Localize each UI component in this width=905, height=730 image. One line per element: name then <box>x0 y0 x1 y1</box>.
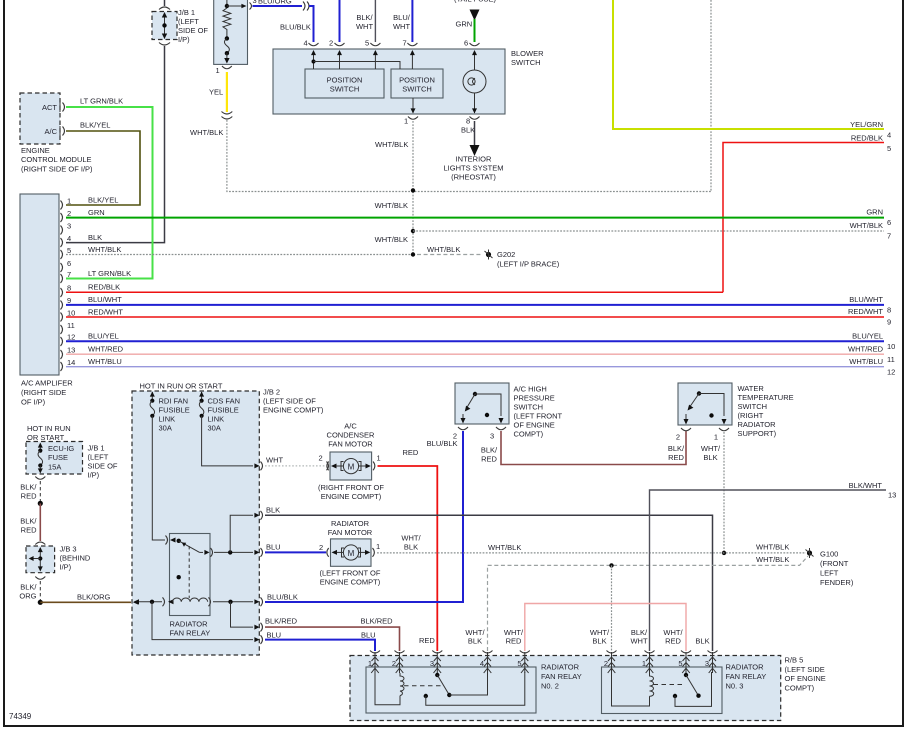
ECM label <box>21 146 93 174</box>
svg-text:WHT/BLK: WHT/BLK <box>375 201 408 210</box>
J/B 3 box <box>26 546 55 573</box>
svg-text:BLU/BLK: BLU/BLK <box>267 593 298 602</box>
svg-text:BLK: BLK <box>404 543 418 552</box>
J/B 2 box <box>132 391 259 655</box>
wire BLK/RED pressure switch to water temp switch <box>501 431 686 465</box>
svg-text:2: 2 <box>604 659 608 668</box>
svg-text:BLK/YEL: BLK/YEL <box>88 196 118 205</box>
A/C condenser fan motor box <box>330 452 372 480</box>
svg-text:WHT: WHT <box>266 456 283 465</box>
svg-text:5: 5 <box>365 39 369 48</box>
svg-text:POSITION: POSITION <box>399 76 435 85</box>
A/C amp pin 3 <box>61 222 72 235</box>
svg-text:RED: RED <box>668 453 684 462</box>
wire BLK/YEL from ECM A/C to A/C amp pin 1 <box>66 121 140 206</box>
svg-text:3: 3 <box>430 659 434 668</box>
svg-text:SIDE OF: SIDE OF <box>178 26 208 35</box>
svg-text:A/C HIGH: A/C HIGH <box>514 385 547 394</box>
svg-text:WHT/RED: WHT/RED <box>88 345 124 354</box>
svg-text:BLU/ORG: BLU/ORG <box>258 0 292 6</box>
svg-text:N0. 2: N0. 2 <box>541 682 559 691</box>
radiator fan relay No.3 box <box>602 667 723 714</box>
J/B 1 connector internals <box>162 12 167 39</box>
svg-text:SWITCH: SWITCH <box>511 58 541 67</box>
A/C amp pin 6 <box>61 259 72 272</box>
svg-text:WHT/: WHT/ <box>401 534 421 543</box>
svg-text:I/P): I/P) <box>88 471 100 480</box>
svg-text:WHT/BLK: WHT/BLK <box>756 555 789 564</box>
svg-text:1: 1 <box>67 197 71 206</box>
wire BLK/RED to relay2 pin 2 <box>265 617 400 652</box>
water temperature switch label <box>738 384 794 438</box>
svg-text:BLK/YEL: BLK/YEL <box>80 121 110 130</box>
A/C amp pin 11 <box>61 321 75 334</box>
svg-text:5: 5 <box>887 144 891 153</box>
svg-text:4: 4 <box>67 234 71 243</box>
svg-text:FAN RELAY: FAN RELAY <box>170 629 211 638</box>
A/C condenser fan motor location label <box>318 483 384 501</box>
svg-text:RED: RED <box>403 448 419 457</box>
svg-text:RED: RED <box>506 637 522 646</box>
svg-text:LINK: LINK <box>159 415 176 424</box>
svg-text:J/B 1: J/B 1 <box>178 8 195 17</box>
svg-text:WHT/BLK: WHT/BLK <box>190 128 223 137</box>
svg-text:ORG: ORG <box>19 592 36 601</box>
wire WHT/RED bridge relay2 pin5 to relay3 pin5 <box>525 604 686 652</box>
svg-text:(RHEOSTAT): (RHEOSTAT) <box>451 173 496 182</box>
relay3 internals <box>612 672 712 706</box>
blower switch label <box>511 49 544 67</box>
svg-text:7: 7 <box>403 39 407 48</box>
inline connector on YEL/WHT-BLK wire <box>222 112 233 120</box>
svg-text:SWITCH: SWITCH <box>330 85 360 94</box>
svg-text:GRN: GRN <box>866 208 883 217</box>
svg-text:BLK/: BLK/ <box>20 483 37 492</box>
radiator fan relay No.2 label <box>541 663 582 691</box>
engine control module box <box>20 93 60 144</box>
radiator fan relay No.2 box <box>366 667 536 713</box>
svg-text:BLU/WHT: BLU/WHT <box>88 295 122 304</box>
svg-text:BLK: BLK <box>468 637 482 646</box>
svg-text:POSITION: POSITION <box>327 76 363 85</box>
svg-text:BLU/WHT: BLU/WHT <box>849 295 883 304</box>
wire BLU/WHT into blower pin 7 <box>393 0 412 48</box>
position switch 2 text <box>399 76 435 94</box>
svg-text:3: 3 <box>490 432 494 441</box>
svg-text:BLK/: BLK/ <box>20 517 37 526</box>
svg-text:BLU/YEL: BLU/YEL <box>88 332 119 341</box>
svg-text:LINK: LINK <box>208 415 225 424</box>
svg-text:WHT/BLK: WHT/BLK <box>88 245 121 254</box>
svg-text:RED/WHT: RED/WHT <box>88 308 123 317</box>
svg-text:8: 8 <box>466 117 470 126</box>
wire BLU into blower pin 2 <box>329 0 340 48</box>
wire WHT/BLK relay grounds dashed to G100 <box>488 555 809 651</box>
J/B 2 label <box>263 388 324 415</box>
position switch 1 text <box>327 76 363 94</box>
svg-text:A/C AMPLIFER: A/C AMPLIFER <box>21 379 73 388</box>
svg-text:OF ENGINE: OF ENGINE <box>514 421 555 430</box>
svg-text:J/B 1: J/B 1 <box>88 444 105 453</box>
radiator fan relay box <box>170 534 211 616</box>
svg-text:RADIATOR: RADIATOR <box>726 663 765 672</box>
svg-text:BLK/RED: BLK/RED <box>361 617 394 626</box>
svg-text:(LEFT SIDE: (LEFT SIDE <box>785 665 825 674</box>
svg-text:2: 2 <box>676 433 680 442</box>
svg-text:SIDE OF: SIDE OF <box>88 462 118 471</box>
svg-text:6: 6 <box>67 259 71 268</box>
A/C high pressure switch label <box>514 385 563 439</box>
svg-text:15A: 15A <box>48 463 61 472</box>
svg-text:FUSIBLE: FUSIBLE <box>159 406 190 415</box>
svg-text:SWITCH: SWITCH <box>514 403 544 412</box>
svg-text:RED: RED <box>665 637 681 646</box>
svg-text:GRN: GRN <box>88 208 105 217</box>
svg-text:10: 10 <box>67 309 75 318</box>
radiator fan motor location label <box>320 569 381 587</box>
blower switch internals <box>311 50 477 70</box>
svg-text:WATER: WATER <box>738 384 765 393</box>
svg-text:3: 3 <box>705 659 709 668</box>
water temperature switch internals <box>684 391 727 424</box>
svg-text:7: 7 <box>67 270 71 279</box>
svg-text:HOT IN RUN OR START: HOT IN RUN OR START <box>140 382 223 391</box>
A/C amp pin 4 BLK <box>61 233 103 247</box>
resistor pin 1 and YEL wire <box>209 66 232 112</box>
R/B 5 label <box>785 656 826 693</box>
svg-text:WHT/BLU: WHT/BLU <box>849 357 883 366</box>
svg-text:14: 14 <box>67 358 75 367</box>
blower resistor box <box>214 0 248 64</box>
svg-text:BLK: BLK <box>266 506 280 515</box>
A/C amp pin 14 WHT/BLU wire to right edge 12 <box>61 357 896 377</box>
svg-text:RADIATOR: RADIATOR <box>541 663 580 672</box>
A/C amp pin 8 RED/BLK wire <box>61 283 724 298</box>
svg-text:30A: 30A <box>208 424 221 433</box>
J/B 1 label lower <box>88 444 118 480</box>
svg-text:11: 11 <box>887 355 895 364</box>
wire LT GRN/BLK from ECM ACT to A/C amp pin 7 <box>66 97 153 279</box>
svg-text:BLK: BLK <box>703 453 717 462</box>
wire BLU to relay2 pin 1 <box>265 631 376 652</box>
svg-text:J/B 2: J/B 2 <box>263 388 280 397</box>
svg-text:INTERIOR: INTERIOR <box>456 155 492 164</box>
svg-text:RADIATOR: RADIATOR <box>738 420 777 429</box>
svg-text:2: 2 <box>392 659 396 668</box>
wire WHT/BLK motor pin1 to G100 <box>377 534 806 553</box>
svg-text:SWITCH: SWITCH <box>402 85 432 94</box>
wire BLU/BLK pressure switch to relay <box>265 431 463 602</box>
radiator fan relay switch <box>177 539 213 598</box>
wire CDS link down to WHT exit <box>202 416 263 471</box>
svg-text:RADIATOR: RADIATOR <box>331 519 370 528</box>
svg-text:ENGINE COMPT): ENGINE COMPT) <box>263 406 324 415</box>
ground G202 <box>485 250 560 269</box>
svg-text:SUPPORT): SUPPORT) <box>738 429 777 438</box>
svg-text:2: 2 <box>319 454 323 463</box>
wire BLK from top into J/B1 <box>159 0 170 10</box>
radiator fan motor label <box>328 519 373 537</box>
wire WHT/BLK relay3 pin2 up to ground line <box>611 565 613 651</box>
svg-text:BLK/: BLK/ <box>356 13 373 22</box>
svg-text:RED/BLK: RED/BLK <box>88 283 120 292</box>
svg-text:10: 10 <box>887 342 895 351</box>
svg-text:FAN MOTOR: FAN MOTOR <box>328 440 373 449</box>
svg-text:OR START: OR START <box>27 433 65 442</box>
svg-text:M: M <box>348 549 355 558</box>
svg-text:BLK: BLK <box>88 233 102 242</box>
blower switch box <box>273 49 505 114</box>
svg-text:ACT: ACT <box>42 103 57 112</box>
svg-text:1: 1 <box>377 454 381 463</box>
A/C amp pin 12 BLU/YEL wire to right edge 10 <box>61 332 896 352</box>
CDS fan fusible link <box>199 392 240 433</box>
svg-text:WHT/BLK: WHT/BLK <box>427 245 460 254</box>
water temperature switch box <box>678 383 732 425</box>
svg-text:A/C: A/C <box>44 127 57 136</box>
svg-text:WHT/BLK: WHT/BLK <box>375 235 408 244</box>
svg-text:ENGINE: ENGINE <box>21 146 50 155</box>
svg-text:5: 5 <box>678 659 682 668</box>
relay switch output to BLU motor exit and BLK exit <box>214 511 263 557</box>
position switch 1 box <box>305 69 384 98</box>
wire BLK/WHT relay3 pin1 to right edge 13 <box>650 481 897 651</box>
svg-text:COMPT): COMPT) <box>514 430 544 439</box>
svg-text:I/P): I/P) <box>60 563 72 572</box>
svg-text:BLK/: BLK/ <box>668 444 685 453</box>
water temperature switch pins <box>668 428 729 462</box>
svg-text:RED: RED <box>481 455 497 464</box>
svg-text:8: 8 <box>67 284 71 293</box>
svg-text:4: 4 <box>480 659 484 668</box>
svg-text:RED/BLK: RED/BLK <box>851 134 883 143</box>
svg-text:13: 13 <box>888 491 896 500</box>
svg-text:BLK: BLK <box>592 637 606 646</box>
A/C condenser fan motor <box>319 454 381 474</box>
svg-text:BLU/YEL: BLU/YEL <box>852 332 883 341</box>
svg-text:(LEFT I/P BRACE): (LEFT I/P BRACE) <box>497 260 560 269</box>
svg-text:BLU: BLU <box>361 631 376 640</box>
svg-text:6: 6 <box>464 39 468 48</box>
svg-text:FENDER): FENDER) <box>820 578 854 587</box>
R/B 5 box <box>350 656 781 721</box>
radiator fan relay coil line BLK/ORG through coil <box>134 597 263 606</box>
wire BLK/RED junction to J/B3 <box>20 503 45 544</box>
wire BLU relay output to radiator fan motor <box>265 543 326 553</box>
A/C amp pin 1 <box>61 196 119 210</box>
wire WHT to condenser fan motor <box>265 456 329 471</box>
relay3 pin connectors <box>604 651 718 674</box>
svg-text:(LEFT SIDE OF: (LEFT SIDE OF <box>263 397 316 406</box>
svg-text:YEL/GRN: YEL/GRN <box>850 120 883 129</box>
svg-text:12: 12 <box>67 333 75 342</box>
ground G100 <box>806 548 854 587</box>
wire BLK relay output to relay3 pin 3 <box>265 506 713 652</box>
svg-text:LT GRN/BLK: LT GRN/BLK <box>80 97 123 106</box>
radiator fan relay label <box>170 620 211 638</box>
svg-text:BLK/: BLK/ <box>20 583 37 592</box>
A/C amp pin 7 <box>61 269 132 283</box>
A/C amp pin 2 GRN wire to right edge 6 <box>61 208 892 228</box>
svg-text:6: 6 <box>887 218 891 227</box>
svg-text:9: 9 <box>67 296 71 305</box>
svg-text:BLK/RED: BLK/RED <box>265 617 298 626</box>
svg-text:1: 1 <box>368 659 372 668</box>
svg-text:(FRONT: (FRONT <box>820 559 849 568</box>
svg-text:BLK/WHT: BLK/WHT <box>849 481 883 490</box>
svg-text:4: 4 <box>304 39 308 48</box>
resistor pin 3 connector and BLU/ORG wire <box>250 0 314 47</box>
svg-text:RADIATOR: RADIATOR <box>170 620 209 629</box>
svg-text:RED: RED <box>21 492 37 501</box>
svg-text:BLK: BLK <box>461 126 475 135</box>
svg-text:30A: 30A <box>159 424 172 433</box>
svg-text:BLU/BLK: BLU/BLK <box>280 23 311 32</box>
svg-text:BLK: BLK <box>695 637 709 646</box>
svg-text:RED: RED <box>419 636 435 645</box>
svg-text:LT GRN/BLK: LT GRN/BLK <box>88 269 131 278</box>
position switch 2 box <box>391 69 443 98</box>
svg-text:(LEFT: (LEFT <box>88 453 109 462</box>
wire YEL/GRN to right edge pin 4 <box>613 0 891 140</box>
svg-text:ENGINE COMPT): ENGINE COMPT) <box>320 578 381 587</box>
A/C high pressure switch internals <box>461 392 504 424</box>
svg-text:1: 1 <box>216 66 220 75</box>
svg-text:WHT/: WHT/ <box>701 444 721 453</box>
A/C amplifier box <box>20 194 59 375</box>
svg-text:WHT/BLK: WHT/BLK <box>850 221 883 230</box>
wire RDI link down to relay switch <box>152 416 175 545</box>
svg-text:R/B 5: R/B 5 <box>785 656 804 665</box>
A/C amp label <box>21 379 73 407</box>
svg-text:BLK/: BLK/ <box>481 446 498 455</box>
wire RED from condenser motor to relay2 pin 3 <box>378 448 438 651</box>
J/B 1 label <box>178 8 208 44</box>
svg-text:WHT: WHT <box>393 22 410 31</box>
svg-text:BLU/BLK: BLU/BLK <box>427 439 458 448</box>
svg-text:CONTROL MODULE: CONTROL MODULE <box>21 155 92 164</box>
A/C amp pin 13 WHT/RED wire to right edge 11 <box>61 345 895 365</box>
svg-text:YEL: YEL <box>209 88 223 97</box>
svg-text:1: 1 <box>714 433 718 442</box>
svg-text:13: 13 <box>67 346 75 355</box>
svg-text:RDI FAN: RDI FAN <box>159 397 189 406</box>
svg-text:FUSIBLE: FUSIBLE <box>208 406 239 415</box>
radiator fan relay No.3 label <box>726 663 767 691</box>
wire WHT/BLK x413 labels and branch to right edge 7 <box>375 201 892 244</box>
svg-text:(RIGHT SIDE: (RIGHT SIDE <box>21 388 66 397</box>
svg-text:HOT IN RUN: HOT IN RUN <box>27 424 71 433</box>
blower pin 1 output WHT/BLK <box>375 98 418 255</box>
wire RED/BLK to right edge pin 5 <box>723 134 891 293</box>
relay3 pin wire labels <box>590 628 710 646</box>
svg-text:G100: G100 <box>820 550 838 559</box>
svg-text:WHT: WHT <box>630 637 647 646</box>
svg-text:(TAIL FUSE): (TAIL FUSE) <box>454 0 497 4</box>
RDI fan fusible link <box>150 392 190 433</box>
svg-text:(LEFT: (LEFT <box>178 17 199 26</box>
svg-text:(RIGHT: (RIGHT <box>738 411 764 420</box>
wire BLK/ORG J/B3 to junction dot <box>19 577 45 605</box>
svg-text:1: 1 <box>376 542 380 551</box>
svg-text:ENGINE COMPT): ENGINE COMPT) <box>321 492 382 501</box>
relay branch to BLK/RED exit pin2 feed <box>231 602 263 632</box>
wire WHT/BLK from connector down and right to x711 <box>190 120 711 192</box>
svg-text:TEMPERATURE: TEMPERATURE <box>738 393 794 402</box>
relay2 pin connectors <box>368 651 530 674</box>
J/B 3 label <box>60 545 91 572</box>
relay2 pin wire labels <box>465 628 524 646</box>
svg-text:(RIGHT SIDE OF I/P): (RIGHT SIDE OF I/P) <box>21 165 93 174</box>
radiator fan motor box <box>331 539 372 566</box>
svg-text:GRN: GRN <box>456 20 473 29</box>
svg-text:G202: G202 <box>497 250 515 259</box>
svg-text:2: 2 <box>319 543 323 552</box>
relay branch to BLU exit pin1 feed <box>152 602 263 644</box>
svg-text:FAN MOTOR: FAN MOTOR <box>328 528 373 537</box>
HOT IN RUN OR START label left column <box>27 424 71 442</box>
A/C amp pin 10 RED/WHT wire to right edge 9 <box>61 307 892 327</box>
svg-text:CDS FAN: CDS FAN <box>208 397 241 406</box>
blower switch pin arcs <box>309 43 480 46</box>
A/C condenser fan motor label <box>327 422 376 449</box>
relay2 internals <box>375 672 525 705</box>
svg-text:A/C: A/C <box>344 422 357 431</box>
svg-text:RED/WHT: RED/WHT <box>848 307 883 316</box>
wire WHT/BLK vertical x711 to top <box>710 0 712 192</box>
svg-text:5: 5 <box>517 659 521 668</box>
svg-text:BLU: BLU <box>266 543 281 552</box>
wire BLK J/B1 down to A/C amp pin 4 <box>66 43 170 243</box>
svg-text:BLOWER: BLOWER <box>511 49 544 58</box>
svg-text:PRESSURE: PRESSURE <box>514 394 555 403</box>
svg-text:12: 12 <box>887 368 895 377</box>
svg-text:8: 8 <box>887 306 891 315</box>
svg-text:WHT: WHT <box>356 22 373 31</box>
svg-text:(LEFT FRONT OF: (LEFT FRONT OF <box>320 569 381 578</box>
svg-text:(LEFT FRONT: (LEFT FRONT <box>514 412 563 421</box>
A/C high pressure switch box <box>455 383 509 424</box>
svg-text:M: M <box>348 463 355 472</box>
svg-text:FAN RELAY: FAN RELAY <box>726 672 767 681</box>
svg-text:RED: RED <box>21 526 37 535</box>
svg-text:LEFT: LEFT <box>820 569 839 578</box>
svg-text:WHT/BLK: WHT/BLK <box>375 140 408 149</box>
blower pin 8 output BLK to interior lights <box>443 93 503 182</box>
blower illumination lamp <box>463 70 486 93</box>
svg-text:(RIGHT FRONT OF: (RIGHT FRONT OF <box>318 483 384 492</box>
svg-text:CONDENSER: CONDENSER <box>327 431 376 440</box>
svg-text:FAN RELAY: FAN RELAY <box>541 672 582 681</box>
svg-text:LIGHTS SYSTEM: LIGHTS SYSTEM <box>443 164 503 173</box>
svg-text:11: 11 <box>67 321 75 330</box>
svg-text:4: 4 <box>887 131 891 140</box>
svg-text:ECU-IG: ECU-IG <box>48 444 74 453</box>
A/C amp pin 9 BLU/WHT wire to right edge 8 <box>61 295 892 315</box>
ECU-IG fuse box <box>26 442 83 475</box>
svg-text:7: 7 <box>887 232 891 241</box>
blower resistor internals <box>223 0 247 64</box>
J/B 3 internals <box>29 547 43 572</box>
wire BLK/RED fuse to junction dot <box>20 477 45 507</box>
svg-text:BLU/: BLU/ <box>393 13 411 22</box>
wire BLK/WHT into blower pin 5 <box>356 0 375 48</box>
svg-text:WHT/RED: WHT/RED <box>848 345 884 354</box>
J/B 1 top connector box <box>152 12 177 40</box>
wire GRN from tail fuse into blower pin 6 <box>454 0 497 48</box>
wire BLK/ORG to J/B2 radiator fan relay <box>40 593 138 605</box>
svg-text:OF I/P): OF I/P) <box>21 398 46 407</box>
